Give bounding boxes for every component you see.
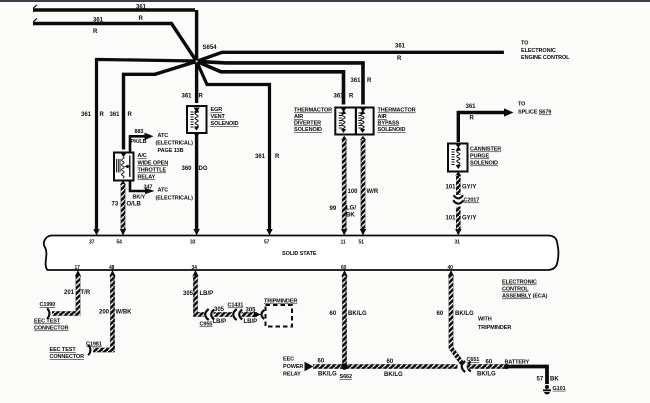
svg-text:34: 34 [192, 265, 198, 271]
svg-text:S662: S662 [340, 374, 352, 380]
svg-text:RELAY: RELAY [283, 372, 301, 378]
label THERMACTOR AIR BYPASS SOLENOID [378, 108, 416, 134]
svg-text:C1431: C1431 [228, 303, 244, 309]
svg-text:361: 361 [93, 18, 104, 24]
wire to electronic engine control [197, 52, 504, 61]
svg-text:THROTTLE: THROTTLE [138, 168, 167, 174]
svg-text:SOLENOID: SOLENOID [211, 121, 239, 127]
svg-text:R: R [367, 78, 372, 84]
svg-text:305: 305 [246, 308, 257, 314]
svg-text:BK/LG: BK/LG [477, 372, 496, 378]
splice S662 [340, 363, 352, 380]
label THERMACTOR AIR DIVERTER SOLENOID [294, 108, 332, 134]
svg-text:57: 57 [264, 240, 270, 246]
svg-text:AIR: AIR [294, 114, 303, 120]
ECA top pin numbers [89, 240, 460, 246]
wire branch to a/c wot relay [124, 61, 197, 149]
svg-text:LB/P: LB/P [244, 319, 258, 325]
svg-text:W/BK: W/BK [116, 310, 133, 316]
svg-text:PURGE: PURGE [470, 154, 489, 160]
svg-text:51: 51 [359, 240, 365, 246]
text EEC TEST CONNECTOR upper [34, 319, 69, 332]
wire branch to thermactor air diverter solenoid [197, 61, 344, 104]
svg-text:ATC: ATC [158, 133, 169, 139]
ECA bottom pin numbers [75, 265, 454, 271]
solenoid U3 thermactor air bypass solenoid [356, 108, 374, 135]
svg-text:ASSEMBLY (ECA): ASSEMBLY (ECA) [502, 294, 548, 300]
svg-text:RELAY: RELAY [138, 175, 156, 181]
connector C2017 [453, 195, 479, 203]
svg-text:BK/LG: BK/LG [384, 372, 403, 378]
svg-text:60: 60 [341, 265, 347, 271]
wire 361 R top feed B [33, 18, 197, 61]
label 60 BK/LG mid [384, 359, 403, 378]
svg-text:101: 101 [446, 185, 457, 191]
svg-text:R: R [397, 56, 402, 62]
svg-text:ENGINE CONTROL: ENGINE CONTROL [521, 55, 570, 61]
svg-text:C1981: C1981 [86, 342, 102, 348]
label 60 BK/LG pin60 [330, 311, 367, 317]
wire 201 T/R pin 17 to EEC test connector [52, 276, 78, 314]
svg-text:60: 60 [387, 359, 394, 365]
splice S654 [193, 45, 217, 65]
wire 360 DG egr to pin 33 [193, 133, 199, 230]
label CANNISTER PURGE SOLENOID [470, 147, 501, 167]
label diverter feed 361 R [334, 94, 355, 100]
solenoid U2 thermactor air diverter solenoid [335, 108, 356, 135]
svg-text:100: 100 [348, 189, 359, 195]
label 60 BK/LG left [318, 359, 337, 378]
svg-text:O/LB: O/LB [127, 202, 142, 208]
wire 883 PK/LB to ATC [130, 133, 154, 153]
label 201 T/R [64, 290, 91, 296]
label 99 LG/BK [330, 206, 357, 219]
label eec wire 361 R [395, 44, 406, 63]
svg-text:BK/Y: BK/Y [133, 195, 146, 201]
svg-text:R: R [139, 16, 144, 22]
svg-text:SPLICE S679: SPLICE S679 [518, 110, 551, 116]
connector C1431 [233, 309, 242, 320]
label 305 LB/P vertical [183, 291, 213, 297]
svg-text:THERMACTOR: THERMACTOR [378, 108, 416, 114]
label ELECTRONIC CONTROL ASSEMBLY (ECA) [502, 280, 548, 300]
svg-text:BYPASS: BYPASS [378, 121, 400, 127]
svg-text:(ELECTRICAL): (ELECTRICAL) [156, 196, 194, 202]
svg-text:40: 40 [448, 265, 454, 271]
top window border bar [0, 0, 650, 2]
svg-text:60: 60 [437, 311, 444, 317]
svg-text:GY/Y: GY/Y [462, 216, 476, 222]
svg-text:A/C: A/C [138, 153, 147, 159]
svg-text:CONNECTOR: CONNECTOR [50, 354, 85, 360]
svg-text:THERMACTOR: THERMACTOR [294, 108, 332, 114]
text ATC ELECTRICAL PAGE 13B [156, 133, 194, 154]
wire 305 LB/P middle segment [214, 312, 233, 317]
label bypass feed 361 R [351, 78, 373, 84]
svg-text:PK/LB: PK/LB [131, 139, 147, 145]
svg-text:DIVERTER: DIVERTER [294, 121, 321, 127]
text WITH TRIPMINDER [478, 317, 511, 332]
label EGR VENT SOLENOID [211, 107, 239, 127]
svg-text:C955: C955 [200, 322, 213, 328]
label 101 GY/Y lower [446, 216, 477, 222]
svg-text:361: 361 [136, 5, 147, 11]
svg-text:POWER: POWER [283, 364, 303, 370]
label relay feed 361 R [110, 112, 133, 118]
text EEC POWER RELAY [283, 357, 303, 378]
svg-text:W/R: W/R [367, 189, 379, 195]
svg-text:48: 48 [109, 265, 115, 271]
label 100 W/R [348, 189, 379, 195]
wire 60 BK/LG relay to S662 [313, 364, 458, 369]
svg-text:LB/P: LB/P [200, 291, 214, 297]
relay K1 A/C wide open throttle relay [114, 153, 134, 181]
svg-text:S654: S654 [203, 45, 218, 51]
svg-text:99: 99 [330, 206, 337, 212]
svg-text:R: R [275, 154, 280, 160]
label 57 BK [537, 377, 560, 383]
wire 101 GY/Y upper [455, 172, 461, 196]
svg-text:37: 37 [89, 240, 95, 246]
svg-text:361: 361 [182, 94, 193, 100]
svg-text:57: 57 [537, 377, 544, 383]
svg-text:BK/LG: BK/LG [348, 311, 367, 317]
wire 60 BK/LG C651 to battery [467, 364, 505, 369]
svg-text:EEC TEST: EEC TEST [34, 319, 61, 325]
svg-text:WITH: WITH [478, 317, 492, 323]
svg-text:PAGE 13B: PAGE 13B [158, 148, 184, 154]
EEC power relay source arrow [305, 362, 314, 371]
svg-text:347: 347 [144, 185, 153, 191]
svg-text:361: 361 [351, 78, 362, 84]
wire branch to pin 57 [197, 61, 270, 230]
svg-text:361: 361 [110, 112, 121, 118]
svg-text:EEC TEST: EEC TEST [50, 347, 77, 353]
label 360 DG [182, 166, 208, 172]
svg-text:TRIPMINDER: TRIPMINDER [264, 299, 297, 305]
svg-text:60: 60 [318, 359, 325, 365]
svg-text:CONTROL: CONTROL [502, 287, 529, 293]
label pin37 wire 361 R [81, 112, 105, 118]
label 305 LB/P right [244, 308, 258, 326]
svg-text:883: 883 [135, 129, 144, 135]
svg-text:33: 33 [190, 240, 196, 246]
svg-text:R: R [199, 94, 204, 100]
battery node [504, 360, 530, 370]
text ATC ELECTRICAL lower [156, 188, 194, 202]
ECA top pin entry arrows [93, 229, 461, 236]
svg-text:R: R [349, 94, 354, 100]
label 60 BK/LG pin40 [437, 311, 474, 317]
arrow into tripminder [254, 312, 261, 318]
svg-text:VENT: VENT [211, 114, 226, 120]
svg-text:CONNECTOR: CONNECTOR [34, 326, 69, 332]
svg-text:101: 101 [446, 216, 457, 222]
svg-text:ELECTRONIC: ELECTRONIC [502, 280, 537, 286]
svg-text:G101: G101 [553, 386, 566, 392]
svg-text:TO: TO [521, 41, 529, 47]
svg-text:ATC: ATC [158, 188, 169, 194]
svg-text:BK/LG: BK/LG [318, 372, 337, 378]
svg-text:LB/P: LB/P [213, 319, 227, 325]
solenoid U4 cannister purge solenoid [448, 144, 468, 172]
svg-text:R: R [93, 29, 98, 35]
svg-text:(ELECTRICAL): (ELECTRICAL) [156, 141, 194, 147]
label egr feed 361 R [182, 94, 204, 100]
svg-text:17: 17 [75, 265, 81, 271]
svg-text:EGR: EGR [211, 107, 223, 113]
label 361 R splice wire [466, 104, 477, 122]
svg-text:CANNISTER: CANNISTER [470, 147, 501, 153]
wire 200 W/BK pin 48 to EEC test connector [93, 276, 113, 351]
svg-text:SOLENOID: SOLENOID [470, 161, 498, 167]
svg-text:DG: DG [199, 166, 208, 172]
svg-text:R: R [100, 112, 105, 118]
ECA bottom pin exit arrows [75, 270, 454, 277]
wire branch down to egr vent solenoid [195, 61, 198, 103]
label pin57 wire 361 R [255, 154, 280, 160]
svg-text:201: 201 [64, 290, 75, 296]
wire 100 W/R bypass to pin 51 [360, 136, 366, 229]
label 60 BK/LG right [477, 360, 496, 378]
label 73 O/LB [112, 202, 142, 208]
svg-text:SOLID STATE: SOLID STATE [282, 251, 317, 257]
svg-text:361: 361 [255, 154, 266, 160]
svg-text:SOLENOID: SOLENOID [294, 127, 322, 133]
text EEC TEST CONNECTOR lower [50, 347, 85, 360]
svg-text:361: 361 [334, 94, 345, 100]
label 347 BK/Y [133, 185, 153, 201]
connector C955 [205, 309, 214, 320]
tripminder dashed box [264, 299, 297, 327]
svg-text:60: 60 [330, 311, 337, 317]
svg-text:EEC: EEC [283, 357, 294, 363]
wire 361 R top feed A [33, 5, 197, 62]
text TO SPLICE S679 [518, 102, 551, 116]
svg-text:BK: BK [346, 213, 355, 219]
svg-text:ELECTRONIC: ELECTRONIC [521, 48, 556, 54]
ground G101 [543, 385, 566, 394]
wire 347 BK/Y to ATC [130, 181, 155, 195]
svg-text:R: R [470, 116, 475, 122]
wire to splice S679 [458, 108, 513, 142]
svg-text:SOLENOID: SOLENOID [378, 127, 406, 133]
svg-text:200: 200 [99, 310, 110, 316]
svg-text:305: 305 [183, 291, 194, 297]
svg-text:361: 361 [81, 112, 92, 118]
wire branch to thermactor air bypass solenoid [197, 61, 363, 104]
label 883 PK/LB [131, 129, 147, 145]
text TO ELECTRONIC ENGINE CONTROL [521, 41, 570, 62]
svg-text:360: 360 [182, 166, 193, 172]
svg-text:AIR: AIR [378, 114, 387, 120]
ECA solid state box [44, 236, 559, 271]
connector C651 [462, 357, 480, 372]
svg-text:T/R: T/R [81, 290, 91, 296]
svg-text:31: 31 [455, 240, 461, 246]
wire 73 O/LB relay to pin 54 [120, 181, 126, 230]
svg-text:C1990: C1990 [40, 302, 56, 308]
svg-text:305: 305 [214, 307, 225, 313]
svg-text:11: 11 [341, 240, 346, 246]
wire 101 GY/Y lower [456, 207, 461, 230]
svg-text:R: R [128, 112, 133, 118]
svg-text:361: 361 [395, 44, 406, 50]
solenoid U1 EGR vent solenoid [187, 106, 207, 133]
svg-text:BK/LG: BK/LG [455, 311, 474, 317]
connector C1990 end [47, 308, 49, 318]
wire 305 LB/P pin 34 to tripminder [196, 276, 205, 315]
svg-text:54: 54 [117, 240, 123, 246]
wire 60 BK/LG pin 40 to C651 [451, 276, 463, 365]
wire 60 BK/LG pin 60 to S662 [342, 276, 347, 366]
label wire A 361 R [136, 5, 147, 23]
label 101 GY/Y upper [446, 185, 477, 191]
wire 57 BK battery to ground [507, 367, 548, 385]
svg-text:C2017: C2017 [464, 198, 480, 204]
svg-text:C651: C651 [467, 357, 480, 363]
wire 305 LB/P last segment [242, 312, 258, 317]
svg-text:TO: TO [518, 102, 526, 108]
svg-text:60: 60 [486, 360, 493, 366]
label 200 W/BK [99, 310, 132, 316]
label A/C WIDE OPEN THROTTLE RELAY [138, 153, 169, 181]
svg-text:WIDE OPEN: WIDE OPEN [138, 161, 169, 167]
svg-text:LG/: LG/ [346, 206, 356, 212]
svg-text:73: 73 [112, 202, 119, 208]
wire left branch to pin 37 [97, 60, 197, 231]
label wire B 361 R [93, 18, 104, 36]
svg-text:GY/Y: GY/Y [462, 185, 476, 191]
svg-text:TRIPMINDER: TRIPMINDER [478, 325, 511, 331]
svg-text:361: 361 [466, 104, 477, 110]
connector C1981 end [88, 345, 90, 355]
label 305 LB/P middle [213, 307, 227, 325]
wire 99 LG/BK diverter to pin 11 [341, 136, 347, 229]
svg-text:BK: BK [550, 377, 559, 383]
